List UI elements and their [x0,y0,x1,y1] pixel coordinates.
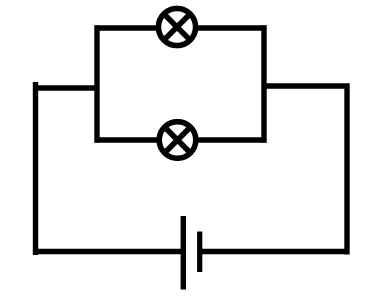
battery B1 short plate [197,232,202,273]
wire bottom-right horizontal [200,249,350,254]
wire bottom branch horizontal [95,137,267,142]
lamp L2 [159,122,196,159]
wire outer-left vertical [33,82,38,255]
wire left connector horizontal [33,85,100,90]
wire bottom-left horizontal [33,249,183,254]
battery B1 long plate [181,216,186,290]
wire top branch horizontal [95,25,267,30]
wire inner-left vertical [94,25,99,142]
wire inner-right vertical [261,25,266,142]
wire right connector horizontal [262,83,350,88]
lamp L1 [158,8,195,45]
wire outer-right vertical [344,84,349,255]
